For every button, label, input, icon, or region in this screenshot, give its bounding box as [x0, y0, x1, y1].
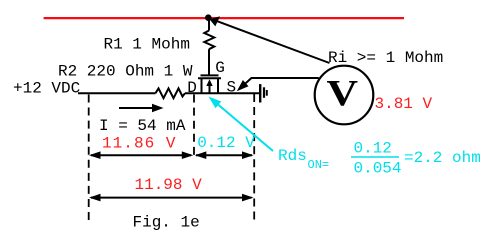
probe lead wire to node A: [216, 21, 330, 63]
svg-text:=2.2 ohm: =2.2 ohm: [404, 149, 481, 167]
dimension arrow row2 (11.98 V): [91, 197, 252, 199]
voltmeter U1 circle: [315, 66, 374, 125]
dimension arrow row1 left (11.86 V): [91, 154, 191, 156]
svg-text:R1 1 Mohm: R1 1 Mohm: [104, 35, 190, 53]
current arrow: [119, 107, 155, 109]
fraction bar: [351, 156, 399, 158]
svg-text:3.81 V: 3.81 V: [375, 95, 433, 113]
svg-text:ON=: ON=: [308, 158, 330, 172]
node A (gate tap junction dot): [205, 14, 212, 21]
probe lead wire to source: [241, 78, 319, 88]
ground symbol (rotated) bar 1: [259, 84, 261, 102]
dashed reference line left: [88, 95, 90, 222]
cyan callout arrow to Rds: [218, 105, 273, 152]
svg-text:D: D: [187, 79, 197, 97]
wire R1 bottom to gate: [208, 49, 210, 75]
dimension arrow row1 right (0.12 V): [196, 154, 252, 156]
wire +12 VDC to R2: [78, 92, 156, 94]
wire R2 to drain and under MOSFET to source: [185, 92, 260, 94]
transistor Q1 MOSFET gate bar: [201, 74, 219, 76]
ground symbol bar 2: [263, 87, 265, 98]
svg-text:G: G: [215, 59, 225, 77]
substrate arrow of MOSFET: [209, 85, 211, 94]
ground symbol bar 3: [266, 90, 268, 96]
svg-text:0.054: 0.054: [354, 160, 402, 178]
dashed reference line middle: [193, 95, 195, 156]
red supply rail wire: [44, 17, 404, 19]
resistor R1 (vertical zigzag): [204, 31, 214, 50]
wire node A to R1 top: [208, 18, 210, 31]
svg-text:V: V: [327, 73, 359, 114]
svg-text:11.86 V: 11.86 V: [102, 135, 177, 153]
source stub wire: [217, 78, 219, 93]
svg-text:+12 VDC: +12 VDC: [13, 80, 80, 98]
transistor Q1 MOSFET channel bar: [198, 77, 221, 79]
svg-text:R2 220 Ohm 1 W: R2 220 Ohm 1 W: [58, 63, 193, 81]
drain stub wire: [201, 78, 203, 93]
svg-text:Fig. 1e: Fig. 1e: [133, 214, 200, 232]
svg-text:11.98 V: 11.98 V: [135, 176, 203, 194]
dashed reference line right: [253, 94, 255, 221]
probe arrowhead at source: [237, 80, 249, 91]
svg-text:I = 54 mA: I = 54 mA: [99, 117, 186, 135]
svg-text:Rds: Rds: [278, 147, 307, 165]
resistor R2 (horizontal zigzag): [156, 88, 186, 98]
svg-text:0.12 V: 0.12 V: [197, 134, 255, 152]
probe arrowhead at node A: [210, 16, 220, 26]
svg-text:Ri >= 1 Mohm: Ri >= 1 Mohm: [328, 49, 443, 67]
svg-text:0.12: 0.12: [354, 140, 392, 158]
